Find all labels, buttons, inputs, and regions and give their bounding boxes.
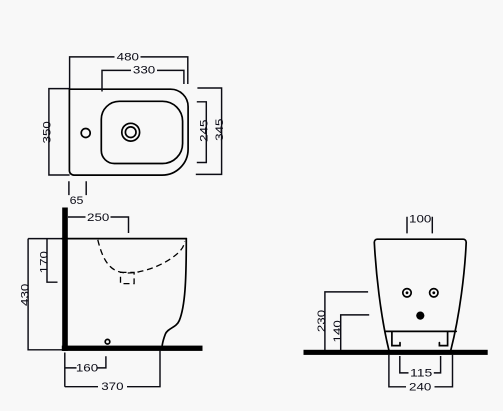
svg-text:330: 330 (133, 65, 155, 77)
svg-text:245: 245 (199, 120, 211, 142)
right tap hole (front view) (430, 289, 438, 297)
hidden drain box (dashed) (121, 272, 135, 283)
svg-text:140: 140 (332, 320, 344, 342)
svg-text:350: 350 (41, 121, 53, 143)
dimension 240 line (389, 355, 453, 387)
floor under side view (thick) (62, 346, 203, 351)
svg-text:170: 170 (39, 251, 51, 273)
drain inner ring (125, 127, 136, 138)
dimension 250 line (68, 217, 129, 233)
svg-text:65: 65 (70, 195, 84, 207)
right foot (439, 332, 447, 346)
dimension 350 line (49, 89, 70, 175)
svg-text:240: 240 (409, 381, 431, 393)
dimension 345 bracket (196, 88, 222, 174)
bidet top edge (side view) with 430 top tick (28, 238, 62, 240)
dimension 160 line (65, 353, 106, 387)
floor under front view (thick) (304, 350, 488, 355)
svg-text:430: 430 (20, 284, 32, 306)
plinth base line (front view) (386, 330, 456, 332)
dimension 330 line (102, 70, 184, 91)
svg-text:345: 345 (214, 119, 226, 141)
svg-text:230: 230 (316, 310, 328, 332)
svg-text:100: 100 (409, 214, 431, 226)
dimension 480 line (70, 57, 188, 89)
bidet front profile (side view) (162, 239, 186, 346)
dimension 100 extension lines (407, 217, 432, 234)
bidet body outline (front view) (374, 239, 466, 350)
left tap hole (front view) (403, 289, 411, 297)
tap hole (81, 129, 90, 138)
dimension 170 line (47, 239, 58, 282)
dimension 245 bracket (197, 102, 207, 163)
dimension 230 line (325, 292, 368, 350)
svg-text:250: 250 (87, 212, 109, 224)
overflow hole (front view) (416, 312, 424, 320)
svg-text:160: 160 (76, 363, 98, 375)
wall (thick) (62, 208, 68, 351)
dimension 140 line (341, 315, 370, 350)
dimension 65 extension lines (69, 181, 86, 195)
bidet outer rim (plan view) (69, 89, 188, 175)
svg-text:370: 370 (101, 381, 123, 393)
drain hole (side view) (105, 339, 110, 344)
left foot (392, 332, 400, 346)
bidet inner basin (plan view) (101, 101, 182, 163)
svg-text:115: 115 (410, 368, 432, 380)
dimension 430 line (28, 239, 62, 350)
svg-text:480: 480 (117, 51, 139, 63)
dimension 115 line (400, 356, 441, 373)
drain outer ring (122, 123, 140, 141)
dimension 370 line (65, 351, 160, 387)
hidden basin contour (dashed) (98, 240, 185, 273)
